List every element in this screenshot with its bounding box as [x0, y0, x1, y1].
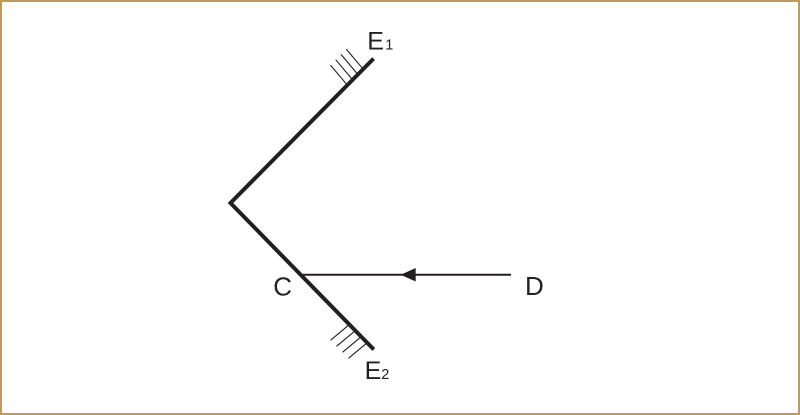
- svg-text:E2: E2: [365, 357, 390, 385]
- svg-text:C: C: [273, 272, 292, 302]
- hatching at E1 (fixed end, 4 strokes): [330, 49, 363, 86]
- svg-text:E1: E1: [367, 28, 393, 56]
- svg-text:D: D: [525, 271, 544, 301]
- arrowhead (pointing left toward C): [401, 268, 416, 282]
- hatching at E2 (fixed end, 4 strokes): [331, 325, 367, 358]
- line from D to C: [303, 274, 511, 276]
- bent rail E1-C-E2 (thick rod with vertex): [231, 59, 374, 350]
